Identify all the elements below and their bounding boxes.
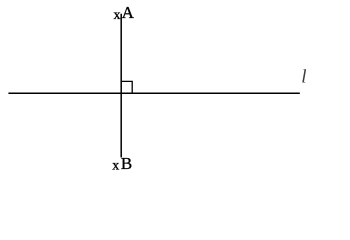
svg-text:A: A [122,3,135,22]
svg-text:B: B [121,154,132,173]
svg-text:l: l [301,67,306,88]
line l (horizontal) [8,92,299,94]
svg-text:x: x [112,159,119,174]
right-angle marker at foot of perpendicular [121,81,132,93]
svg-text:x: x [114,8,121,23]
segment AB (vertical, perpendicular to l) [120,14,122,158]
